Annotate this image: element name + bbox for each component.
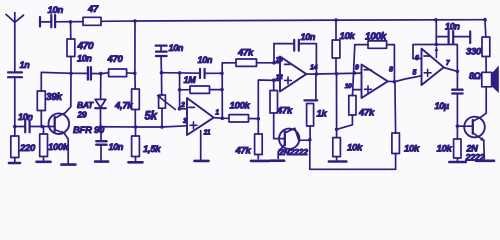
svg-text:1M: 1M xyxy=(184,75,197,85)
svg-text:47k: 47k xyxy=(237,48,254,59)
svg-text:5k: 5k xyxy=(145,111,158,123)
svg-text:12: 12 xyxy=(276,74,283,81)
svg-text:8: 8 xyxy=(389,66,393,73)
svg-text:470: 470 xyxy=(77,41,95,52)
svg-text:10n: 10n xyxy=(48,5,64,16)
svg-text:100k: 100k xyxy=(365,32,387,43)
svg-text:10n: 10n xyxy=(198,55,213,65)
svg-text:11: 11 xyxy=(204,130,211,137)
svg-text:29: 29 xyxy=(77,110,87,120)
svg-text:10k: 10k xyxy=(404,144,420,155)
svg-text:4,7k: 4,7k xyxy=(114,101,133,112)
svg-text:2N2222: 2N2222 xyxy=(278,147,308,157)
svg-text:100k: 100k xyxy=(230,101,251,112)
svg-text:330: 330 xyxy=(466,46,482,57)
svg-text:47k: 47k xyxy=(358,108,375,119)
svg-text:10k: 10k xyxy=(340,31,356,42)
svg-text:47k: 47k xyxy=(235,146,252,157)
svg-text:10µ: 10µ xyxy=(435,101,449,111)
svg-text:10n: 10n xyxy=(77,54,92,64)
svg-text:220: 220 xyxy=(19,143,36,154)
svg-text:39k: 39k xyxy=(46,92,63,103)
svg-text:10n: 10n xyxy=(109,142,124,152)
svg-text:10k: 10k xyxy=(437,144,453,155)
svg-text:470: 470 xyxy=(107,54,124,65)
svg-text:13: 13 xyxy=(276,57,283,64)
svg-text:10n: 10n xyxy=(18,112,33,122)
svg-text:BAT: BAT xyxy=(77,100,94,110)
svg-text:3: 3 xyxy=(183,118,187,125)
svg-text:2222: 2222 xyxy=(465,153,485,163)
svg-text:1n: 1n xyxy=(20,60,31,70)
svg-text:5: 5 xyxy=(413,69,417,76)
svg-text:47: 47 xyxy=(87,4,99,15)
svg-text:10n: 10n xyxy=(301,32,316,42)
svg-text:10n: 10n xyxy=(169,43,184,53)
svg-text:10k: 10k xyxy=(347,143,363,154)
svg-text:10: 10 xyxy=(345,83,352,90)
svg-text:8Ω: 8Ω xyxy=(469,71,481,81)
svg-text:10n: 10n xyxy=(445,22,460,32)
svg-text:100k: 100k xyxy=(48,142,69,153)
svg-text:47k: 47k xyxy=(276,106,293,117)
svg-text:1k: 1k xyxy=(317,109,328,120)
svg-text:9: 9 xyxy=(355,64,359,71)
svg-text:1: 1 xyxy=(215,110,219,117)
svg-text:1,5k: 1,5k xyxy=(143,144,161,155)
